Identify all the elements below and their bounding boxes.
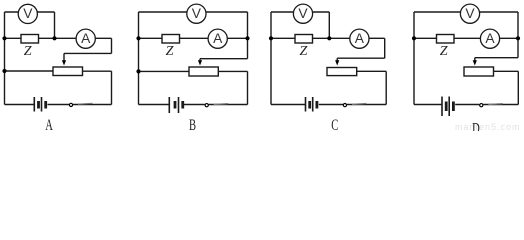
svg-text:A: A xyxy=(485,31,495,46)
svg-text:Z: Z xyxy=(440,44,448,59)
svg-text:Z: Z xyxy=(24,44,32,59)
svg-text:Z: Z xyxy=(166,44,174,59)
svg-text:A: A xyxy=(81,31,91,46)
svg-text:V: V xyxy=(23,6,33,21)
svg-text:A: A xyxy=(213,31,223,46)
svg-text:A: A xyxy=(355,31,365,46)
svg-text:B: B xyxy=(189,116,196,131)
svg-text:C: C xyxy=(331,116,338,131)
svg-text:D: D xyxy=(472,119,480,131)
svg-text:manfen5.com: manfen5.com xyxy=(455,122,521,131)
svg-text:V: V xyxy=(192,6,202,21)
svg-text:V: V xyxy=(465,6,475,21)
svg-text:V: V xyxy=(298,6,308,21)
svg-text:Z: Z xyxy=(300,44,308,59)
svg-text:A: A xyxy=(45,116,53,131)
